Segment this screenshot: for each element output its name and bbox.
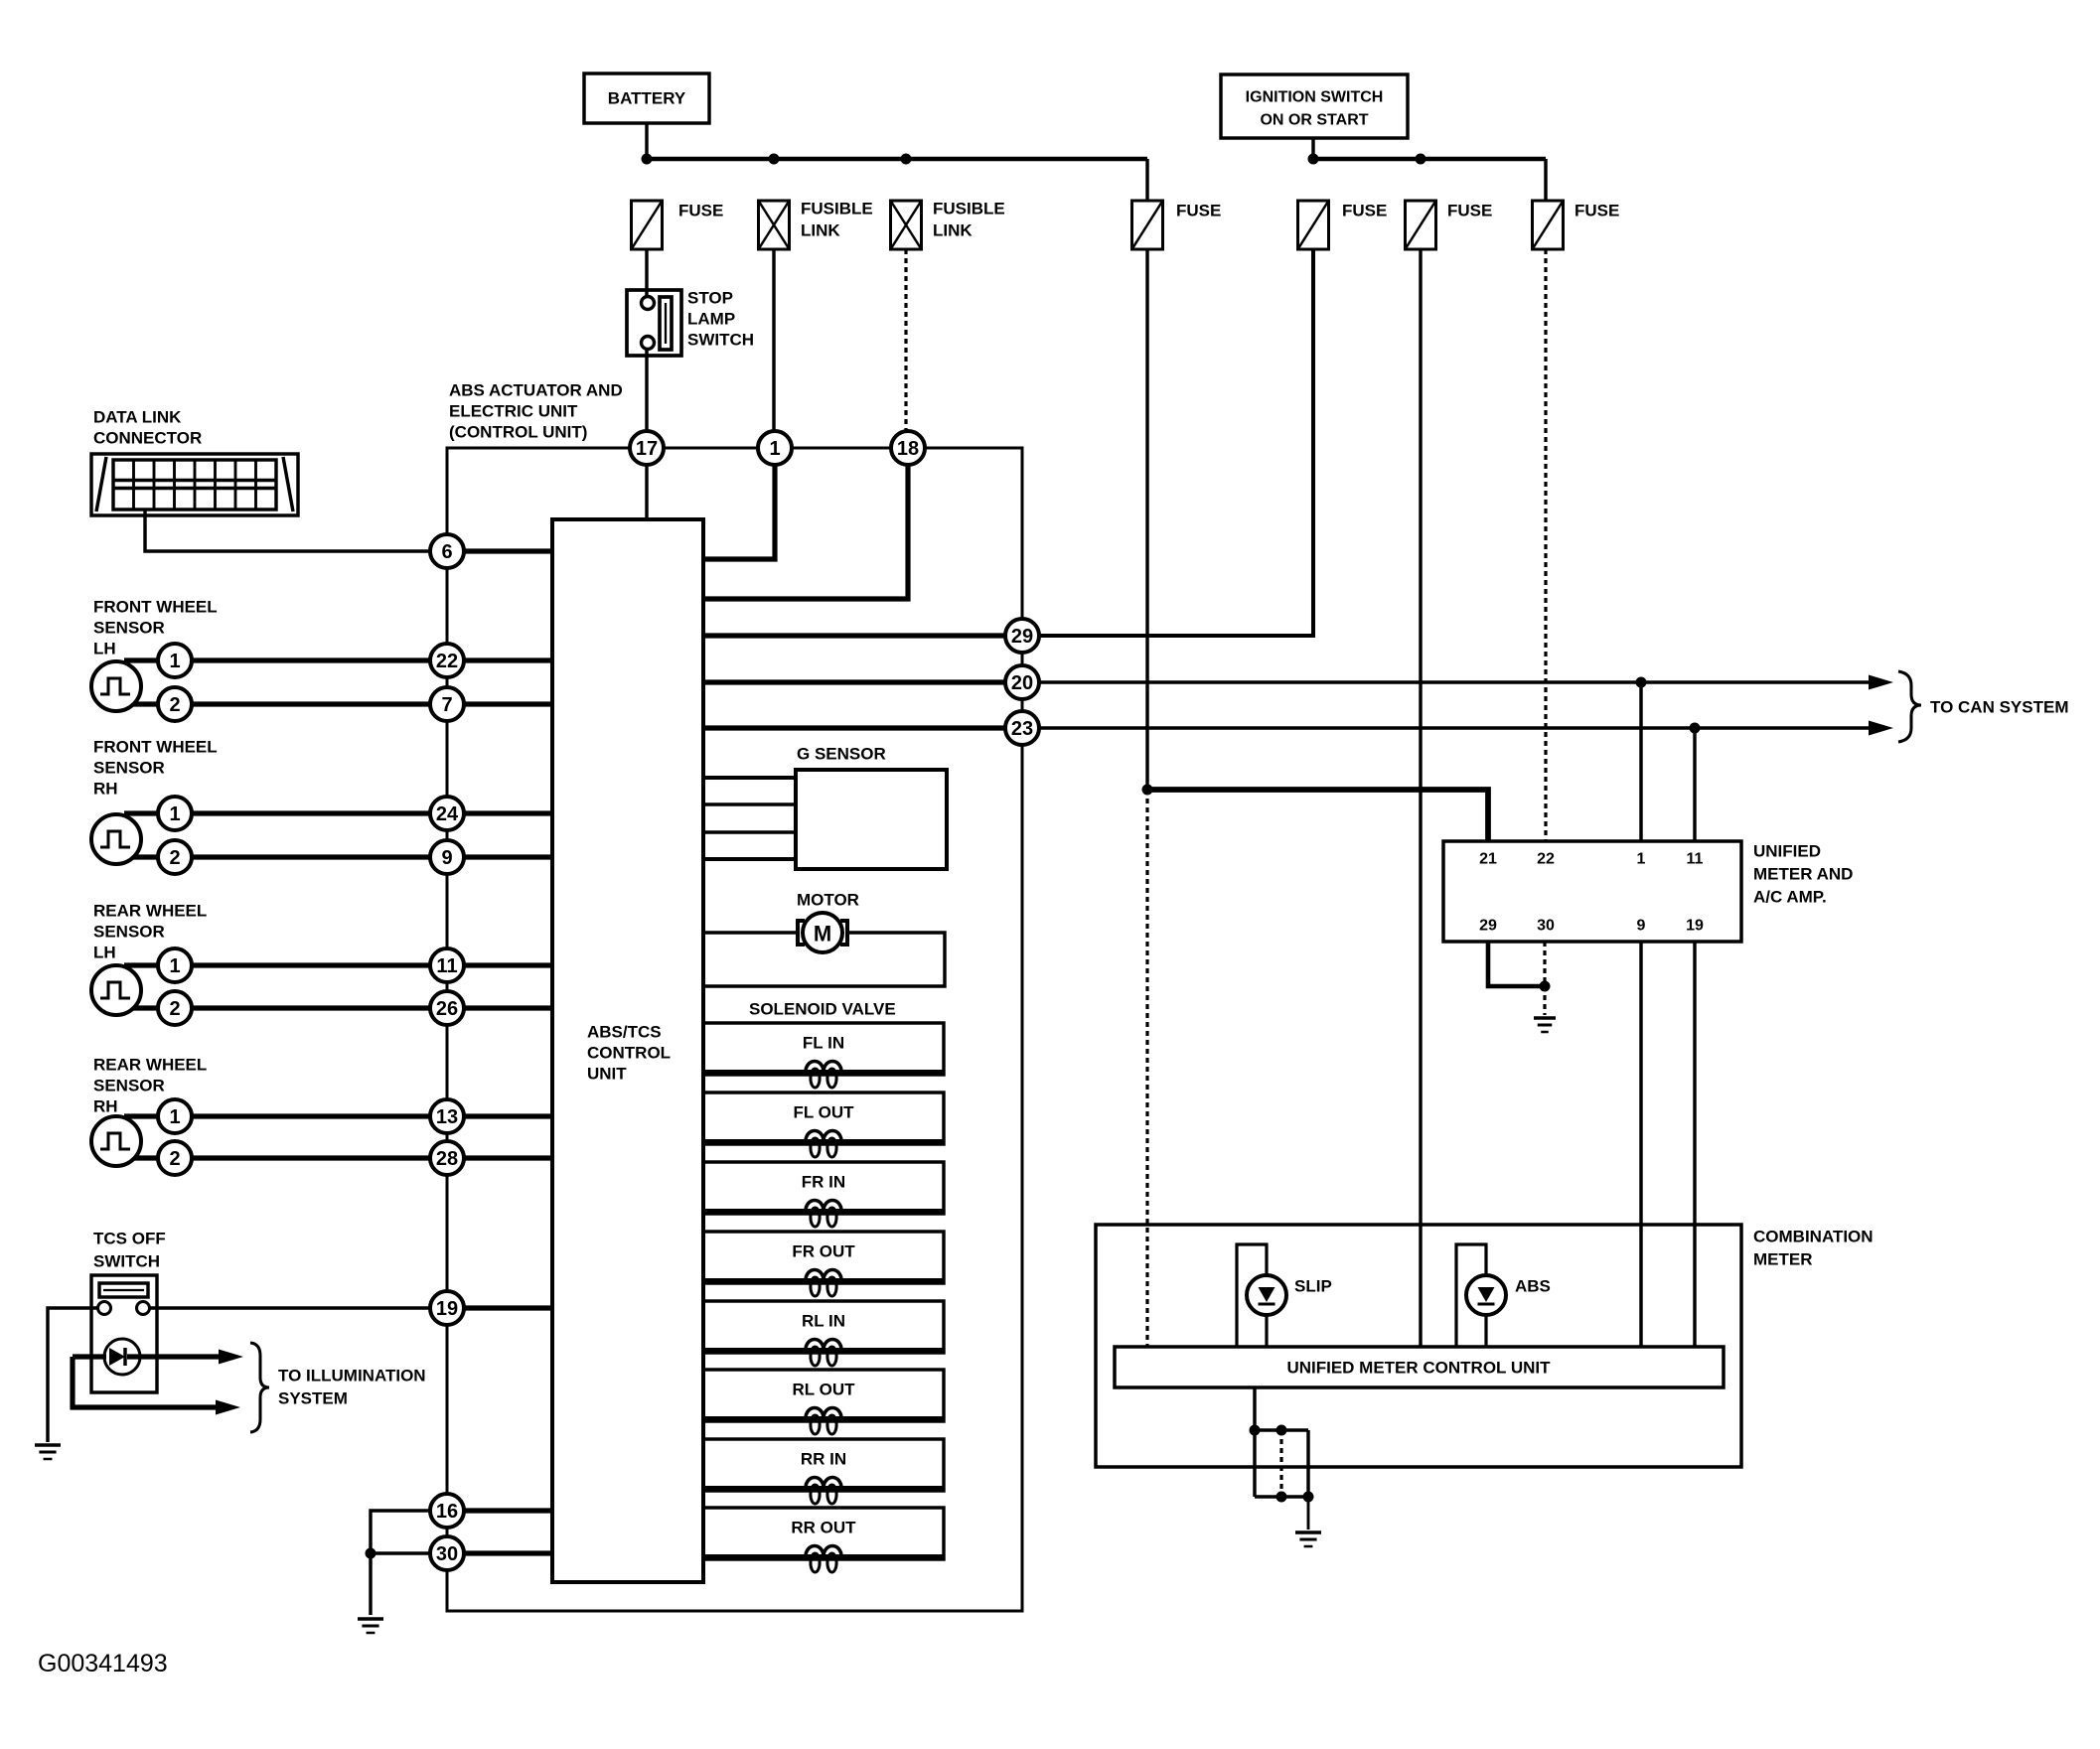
wire data link connector to pin 6: [145, 510, 430, 551]
wire control unit bar to ground ladder: [1253, 1387, 1256, 1430]
svg-text:2: 2: [169, 998, 180, 1020]
wire F4 node to combination meter: [1145, 790, 1148, 1347]
wire ignition switch to bus: [1311, 138, 1314, 159]
front wheel sensor RH sensor: [91, 814, 141, 864]
pin labels unified meter bottom row: [1479, 918, 1704, 935]
svg-text:1: 1: [169, 651, 180, 672]
solenoid coil RR IN: [800, 1478, 847, 1505]
svg-text:ABS ACTUATOR AND: ABS ACTUATOR AND: [449, 381, 623, 400]
svg-text:29: 29: [1479, 918, 1497, 935]
junction ladder bottom mid: [1276, 1492, 1287, 1503]
illumination LED: [104, 1339, 140, 1375]
wire pin 28 to control unit: [464, 1155, 552, 1160]
front wheel sensor LH terminal 1: [158, 644, 192, 677]
fuse F1: [632, 201, 663, 249]
ABS actuator and electric unit box: [447, 448, 1022, 1611]
svg-text:17: 17: [636, 438, 658, 460]
svg-text:1: 1: [169, 803, 180, 825]
junction F4 node: [1142, 785, 1153, 796]
svg-text:18: 18: [897, 438, 919, 460]
svg-text:UNIFIED METER CONTROL UNIT: UNIFIED METER CONTROL UNIT: [1286, 1359, 1551, 1378]
svg-text:FL IN: FL IN: [803, 1034, 844, 1053]
svg-text:CONNECTOR: CONNECTOR: [93, 429, 202, 448]
solenoid valve FR OUT box: [703, 1232, 944, 1283]
solenoid coil FL OUT: [800, 1131, 847, 1158]
wire solenoid RR OUT: [703, 1554, 944, 1558]
label UNIFIED METER AND A/C AMP.: [1753, 842, 1853, 907]
wire motor return: [703, 933, 945, 986]
svg-text:FL OUT: FL OUT: [793, 1103, 854, 1122]
svg-text:13: 13: [436, 1106, 458, 1128]
svg-text:RH: RH: [93, 1097, 118, 1116]
label FUSIBLE LINK FL1: [801, 200, 873, 240]
svg-text:SOLENOID VALVE: SOLENOID VALVE: [749, 1000, 896, 1019]
data link connector: [91, 454, 298, 515]
svg-text:ABS: ABS: [1515, 1277, 1551, 1296]
wire CAN high to meter pin 1: [1639, 682, 1642, 841]
svg-text:RR OUT: RR OUT: [791, 1519, 856, 1537]
solenoid coil RL OUT: [800, 1408, 847, 1435]
wire FL2 to pin 18: [904, 249, 907, 431]
junction fusible link 1: [769, 154, 780, 165]
ground unified meter: [1534, 1018, 1556, 1032]
label ABS ACTUATOR AND ELECTRIC UNIT (CONTROL UNIT): [449, 381, 623, 442]
wire solenoid FL IN: [703, 1070, 944, 1074]
wire G sensor 3: [703, 830, 796, 833]
pin 6: [430, 534, 464, 568]
svg-text:28: 28: [436, 1148, 458, 1170]
junction ladder top mid: [1276, 1425, 1287, 1436]
solenoid coil FL IN: [800, 1062, 847, 1089]
svg-text:FUSE: FUSE: [1575, 202, 1619, 220]
svg-text:(CONTROL UNIT): (CONTROL UNIT): [449, 423, 587, 442]
label TCS OFF SWITCH: [93, 1230, 166, 1271]
rear wheel sensor RH sensor: [91, 1116, 141, 1166]
svg-text:11: 11: [436, 955, 457, 977]
pin 22: [430, 644, 464, 677]
wire G sensor 4: [703, 857, 796, 861]
solenoid coil FR IN: [800, 1201, 847, 1228]
wire meter pin 30 to ground node: [1543, 942, 1546, 986]
wire F4 node to meter pin 21: [1147, 790, 1488, 841]
svg-text:ELECTRIC UNIT: ELECTRIC UNIT: [449, 402, 578, 421]
svg-text:20: 20: [1011, 672, 1033, 694]
wire solenoid FR OUT: [703, 1278, 944, 1282]
solenoid coil FR OUT: [800, 1270, 847, 1297]
brace to illumination system: [250, 1343, 269, 1432]
junction battery bus: [642, 154, 653, 165]
svg-text:UNIT: UNIT: [587, 1065, 627, 1084]
wire control unit to pin 20: [703, 679, 1005, 684]
svg-text:BATTERY: BATTERY: [608, 89, 686, 108]
svg-text:STOP: STOP: [687, 289, 733, 308]
pin 23: [1005, 711, 1039, 745]
wire fuse F4 down: [1145, 249, 1148, 790]
TCS OFF switch: [91, 1275, 157, 1392]
svg-text:24: 24: [436, 803, 459, 825]
svg-text:9: 9: [1637, 918, 1646, 935]
junction ground node: [366, 1548, 376, 1559]
label REAR WHEEL SENSOR LH: [93, 902, 207, 962]
ABS/TCS control unit box: [552, 519, 703, 1582]
unified meter control unit bar: [1115, 1347, 1724, 1387]
wire battery to bus: [645, 123, 648, 159]
svg-text:FRONT WHEEL: FRONT WHEEL: [93, 598, 218, 617]
G sensor box: [796, 770, 947, 869]
wire bus to fuse F7: [1544, 159, 1547, 201]
motor M1: [798, 913, 847, 952]
wire solenoid RL IN: [703, 1348, 944, 1352]
wire fuse F6 to combination meter: [1419, 249, 1422, 1347]
wire rear wheel sensor RH terminal 2: [124, 1155, 430, 1160]
front wheel sensor LH sensor: [91, 661, 141, 711]
pin 9: [430, 840, 464, 874]
label DATA LINK CONNECTOR: [93, 408, 202, 448]
svg-text:SWITCH: SWITCH: [687, 331, 754, 350]
combination meter box: [1096, 1225, 1741, 1467]
pin 19: [430, 1291, 464, 1325]
junction meter ground node: [1540, 981, 1551, 992]
wire ladder bottom: [1255, 1495, 1308, 1498]
front wheel sensor RH terminal 2: [158, 840, 192, 874]
solenoid valve FR IN box: [703, 1162, 944, 1214]
wire FL1 to pin 1: [772, 249, 775, 431]
pin 24: [430, 797, 464, 830]
svg-text:2: 2: [169, 847, 180, 869]
svg-text:REAR WHEEL: REAR WHEEL: [93, 902, 207, 921]
junction CAN high to meter pin 1: [1636, 677, 1647, 688]
svg-text:SENSOR: SENSOR: [93, 759, 165, 778]
wire TCS switch to pin 19: [149, 1306, 430, 1309]
pin 29: [1005, 619, 1039, 653]
wire rear wheel sensor RH terminal 1: [124, 1113, 430, 1118]
wire bus to fuse F4: [1145, 159, 1148, 201]
wire ladder right: [1306, 1430, 1309, 1497]
wire front wheel sensor LH terminal 2: [124, 701, 430, 706]
solenoid valve FL OUT box: [703, 1093, 944, 1144]
wire pin 19 to control unit: [464, 1305, 552, 1310]
junction ladder top left: [1250, 1425, 1261, 1436]
wire front wheel sensor RH terminal 1: [124, 810, 430, 815]
label FRONT WHEEL SENSOR LH: [93, 598, 218, 658]
wire ladder left: [1253, 1430, 1256, 1497]
solenoid coil RR OUT: [800, 1546, 847, 1573]
wire CAN low to meter pin 11: [1693, 728, 1696, 841]
svg-text:22: 22: [1537, 851, 1555, 868]
label COMBINATION METER: [1753, 1228, 1874, 1269]
front wheel sensor LH terminal 2: [158, 687, 192, 721]
svg-text:LINK: LINK: [801, 221, 840, 240]
svg-text:FRONT WHEEL: FRONT WHEEL: [93, 738, 218, 757]
solenoid coil RL IN: [800, 1340, 847, 1367]
pin 30: [430, 1536, 464, 1570]
wire pin 11 to control unit: [464, 962, 552, 967]
wire fuse F7 to meter pin 22: [1544, 249, 1547, 841]
svg-text:SLIP: SLIP: [1294, 1277, 1332, 1296]
solenoid valve RL OUT box: [703, 1370, 944, 1421]
wire G sensor 2: [703, 802, 796, 805]
wire meter pin 19 to combination meter: [1693, 942, 1696, 1347]
svg-text:REAR WHEEL: REAR WHEEL: [93, 1056, 207, 1075]
svg-text:19: 19: [436, 1298, 458, 1320]
wire G sensor 1: [703, 776, 796, 780]
svg-text:1: 1: [169, 1106, 180, 1128]
rear wheel sensor LH terminal 1: [158, 948, 192, 982]
stop lamp switch: [627, 290, 681, 356]
svg-text:SENSOR: SENSOR: [93, 619, 165, 638]
fusible link FL1: [759, 201, 790, 249]
wire pin 26 to control unit: [464, 1005, 552, 1010]
wire SLIP lamp loop: [1237, 1244, 1267, 1347]
battery: [584, 73, 709, 123]
SLIP warning lamp: [1247, 1275, 1286, 1315]
svg-text:FR IN: FR IN: [802, 1173, 845, 1192]
wire ladder mid: [1279, 1430, 1282, 1497]
pin 16: [430, 1494, 464, 1528]
wire F1 to stop lamp switch: [645, 249, 648, 298]
CAN line low: [1039, 726, 1872, 729]
svg-text:SENSOR: SENSOR: [93, 923, 165, 942]
ground ABS unit: [358, 1619, 383, 1633]
fuse F4: [1132, 201, 1163, 249]
wire pin 16 to ground node: [371, 1511, 430, 1553]
junction fuse F6: [1416, 154, 1426, 165]
svg-text:ON OR START: ON OR START: [1260, 112, 1368, 129]
wire pin 30 to control unit: [464, 1550, 552, 1555]
svg-text:DATA LINK: DATA LINK: [93, 408, 182, 427]
rear wheel sensor RH terminal 1: [158, 1099, 192, 1133]
front wheel sensor RH terminal 1: [158, 797, 192, 830]
svg-text:16: 16: [436, 1501, 458, 1523]
ground TCS switch: [35, 1445, 61, 1459]
svg-text:METER AND: METER AND: [1753, 865, 1853, 884]
wire solenoid RR IN: [703, 1486, 944, 1490]
svg-text:FUSE: FUSE: [1447, 202, 1492, 220]
junction fusible link 2: [901, 154, 912, 165]
svg-text:ABS/TCS: ABS/TCS: [587, 1023, 662, 1042]
svg-text:29: 29: [1011, 626, 1033, 648]
wire pin 22 to control unit: [464, 657, 552, 662]
svg-text:RL OUT: RL OUT: [793, 1381, 856, 1399]
svg-text:LH: LH: [93, 640, 116, 658]
label STOP LAMP SWITCH: [687, 289, 754, 350]
brace to CAN system: [1898, 671, 1921, 742]
pin 1: [758, 431, 792, 465]
svg-text:TO CAN SYSTEM: TO CAN SYSTEM: [1930, 698, 2068, 717]
rear wheel sensor LH terminal 2: [158, 991, 192, 1025]
svg-text:7: 7: [441, 694, 452, 716]
svg-text:21: 21: [1479, 851, 1497, 868]
svg-text:IGNITION SWITCH: IGNITION SWITCH: [1246, 89, 1384, 106]
svg-text:SENSOR: SENSOR: [93, 1077, 165, 1095]
CAN line high: [1039, 680, 1872, 683]
svg-text:26: 26: [436, 998, 458, 1020]
wire pin 1 to control unit: [705, 465, 775, 559]
svg-text:FUSE: FUSE: [1176, 202, 1221, 220]
svg-text:A/C AMP.: A/C AMP.: [1753, 888, 1827, 907]
svg-text:LINK: LINK: [933, 221, 973, 240]
wire pin 16 to control unit: [464, 1508, 552, 1513]
svg-text:9: 9: [441, 847, 452, 869]
solenoid valve RL IN box: [703, 1301, 944, 1353]
svg-text:TO ILLUMINATION: TO ILLUMINATION: [278, 1367, 426, 1385]
svg-text:CONTROL: CONTROL: [587, 1044, 671, 1063]
solenoid valve FL IN box: [703, 1023, 944, 1075]
ignition feed bus: [1313, 157, 1546, 162]
junction ignition bus: [1308, 154, 1319, 165]
ignition switch: [1221, 74, 1408, 138]
battery feed bus: [647, 157, 1147, 162]
svg-text:30: 30: [436, 1543, 458, 1565]
svg-text:SWITCH: SWITCH: [93, 1252, 160, 1271]
pin 17: [630, 431, 664, 465]
wire solenoid RL OUT: [703, 1416, 944, 1420]
svg-text:23: 23: [1011, 718, 1033, 740]
fuse F5: [1298, 201, 1329, 249]
wire pin 24 to control unit: [464, 810, 552, 815]
pin labels unified meter top row: [1479, 851, 1703, 868]
wire TCS switch to ground: [48, 1308, 98, 1442]
svg-text:SYSTEM: SYSTEM: [278, 1389, 348, 1408]
wire ladder to ground: [1307, 1497, 1310, 1530]
wire control unit to pin 23: [703, 725, 1005, 730]
pin 7: [430, 687, 464, 721]
wire meter pin 9 to combination meter: [1639, 942, 1642, 1347]
wire rear wheel sensor LH terminal 2: [124, 1005, 430, 1010]
svg-text:19: 19: [1686, 918, 1704, 935]
svg-text:6: 6: [441, 541, 452, 563]
svg-text:1: 1: [769, 438, 780, 460]
wire solenoid FR IN: [703, 1209, 944, 1213]
svg-text:RH: RH: [93, 780, 118, 799]
svg-text:G SENSOR: G SENSOR: [797, 745, 886, 764]
wire ground node down: [369, 1553, 372, 1615]
wire meter ground node down: [1543, 986, 1546, 1015]
ground combination meter: [1295, 1532, 1321, 1546]
pin 18: [891, 431, 925, 465]
svg-text:RL IN: RL IN: [802, 1312, 845, 1331]
wire meter pin 29 to ground node: [1488, 942, 1545, 986]
wire pin 9 to control unit: [464, 854, 552, 859]
fuse F6: [1406, 201, 1436, 249]
svg-text:FUSIBLE: FUSIBLE: [933, 200, 1005, 219]
svg-text:MOTOR: MOTOR: [797, 891, 859, 910]
svg-text:LAMP: LAMP: [687, 310, 735, 329]
svg-text:FUSE: FUSE: [1342, 202, 1387, 220]
wire pin 13 to control unit: [464, 1113, 552, 1118]
label FUSIBLE LINK FL2: [933, 200, 1005, 240]
wire to illumination system 2: [73, 1357, 226, 1407]
wire pin 6 to control unit: [464, 548, 552, 553]
fuse F7: [1533, 201, 1564, 249]
wire pin 18 to control unit: [705, 465, 908, 599]
wire to illumination system 1: [73, 1354, 106, 1359]
svg-text:1: 1: [1637, 851, 1646, 868]
svg-text:1: 1: [169, 955, 180, 977]
label FRONT WHEEL SENSOR RH: [93, 738, 218, 799]
label TO ILLUMINATION SYSTEM: [278, 1367, 426, 1408]
pin 11: [430, 948, 464, 982]
unified meter and A/C amp box: [1443, 841, 1741, 942]
pin 26: [430, 991, 464, 1025]
label ABS/TCS CONTROL UNIT: [587, 1023, 671, 1084]
rear wheel sensor RH terminal 2: [158, 1141, 192, 1175]
wire rear wheel sensor LH terminal 1: [124, 962, 430, 967]
svg-text:TCS OFF: TCS OFF: [93, 1230, 166, 1248]
svg-text:M: M: [814, 922, 831, 947]
pin 20: [1005, 665, 1039, 699]
wire front wheel sensor RH terminal 2: [124, 854, 430, 859]
rear wheel sensor LH sensor: [91, 965, 141, 1015]
wire pin 17 to control unit: [645, 465, 648, 519]
svg-text:22: 22: [436, 651, 458, 672]
solenoid valve RR IN box: [703, 1439, 944, 1491]
wire pin 7 to control unit: [464, 701, 552, 706]
wire control unit to pin 29: [703, 633, 1005, 638]
svg-text:FR OUT: FR OUT: [792, 1242, 855, 1261]
wire solenoid FL OUT: [703, 1139, 944, 1143]
svg-text:METER: METER: [1753, 1250, 1813, 1269]
wire stop lamp switch to pin 17 upper: [645, 348, 648, 431]
svg-text:11: 11: [1687, 851, 1704, 868]
label REAR WHEEL SENSOR RH: [93, 1056, 207, 1116]
junction CAN low to meter pin 11: [1690, 723, 1701, 734]
wire pin 30 to ground node: [371, 1551, 430, 1554]
svg-text:2: 2: [169, 1148, 180, 1170]
svg-text:LH: LH: [93, 944, 116, 962]
svg-text:FUSIBLE: FUSIBLE: [801, 200, 873, 219]
solenoid valve RR OUT box: [703, 1508, 944, 1559]
svg-text:COMBINATION: COMBINATION: [1753, 1228, 1874, 1246]
wire ABS lamp loop: [1456, 1244, 1486, 1347]
wire ladder top: [1255, 1428, 1308, 1431]
svg-text:UNIFIED: UNIFIED: [1753, 842, 1821, 861]
pin 13: [430, 1099, 464, 1133]
ABS warning lamp: [1466, 1275, 1506, 1315]
fusible link FL2: [891, 201, 922, 249]
pin 28: [430, 1141, 464, 1175]
junction ladder bottom right: [1303, 1492, 1314, 1503]
svg-text:FUSE: FUSE: [678, 202, 723, 220]
wire control unit to motor: [703, 931, 798, 934]
svg-text:30: 30: [1537, 918, 1555, 935]
svg-text:G00341493: G00341493: [38, 1650, 168, 1677]
wire front wheel sensor LH terminal 1: [124, 657, 430, 662]
svg-text:2: 2: [169, 694, 180, 716]
svg-text:RR IN: RR IN: [801, 1450, 846, 1469]
wire pin 29 to fuse F5: [1039, 249, 1313, 636]
